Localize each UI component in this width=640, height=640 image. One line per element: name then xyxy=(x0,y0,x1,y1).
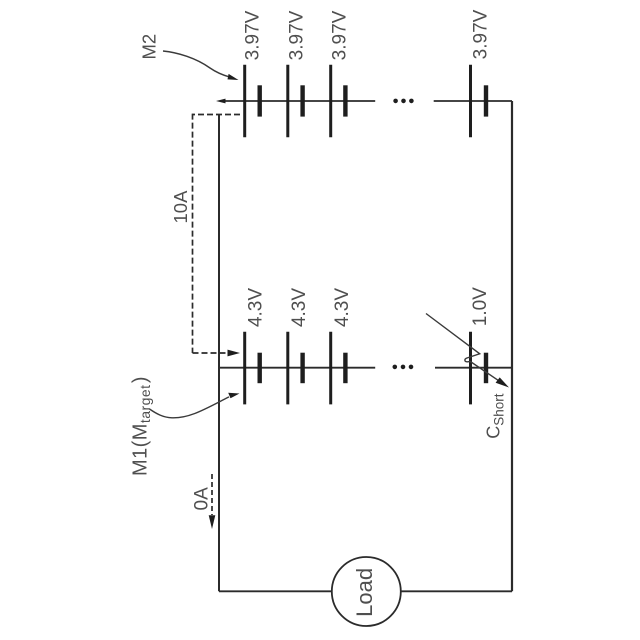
svg-text:M2: M2 xyxy=(139,34,160,60)
svg-text:Load: Load xyxy=(352,568,377,617)
svg-text:3.97V: 3.97V xyxy=(286,10,307,60)
svg-text:3.97V: 3.97V xyxy=(470,9,491,59)
svg-text:10A: 10A xyxy=(170,190,191,224)
svg-text:4.3V: 4.3V xyxy=(245,288,266,327)
svg-text:1.0V: 1.0V xyxy=(470,287,491,326)
svg-text:0A: 0A xyxy=(192,487,213,511)
svg-text:3.97V: 3.97V xyxy=(329,10,350,60)
svg-text:4.3V: 4.3V xyxy=(332,288,353,327)
svg-text:3.97V: 3.97V xyxy=(243,10,264,60)
svg-text:4.3V: 4.3V xyxy=(289,288,310,327)
